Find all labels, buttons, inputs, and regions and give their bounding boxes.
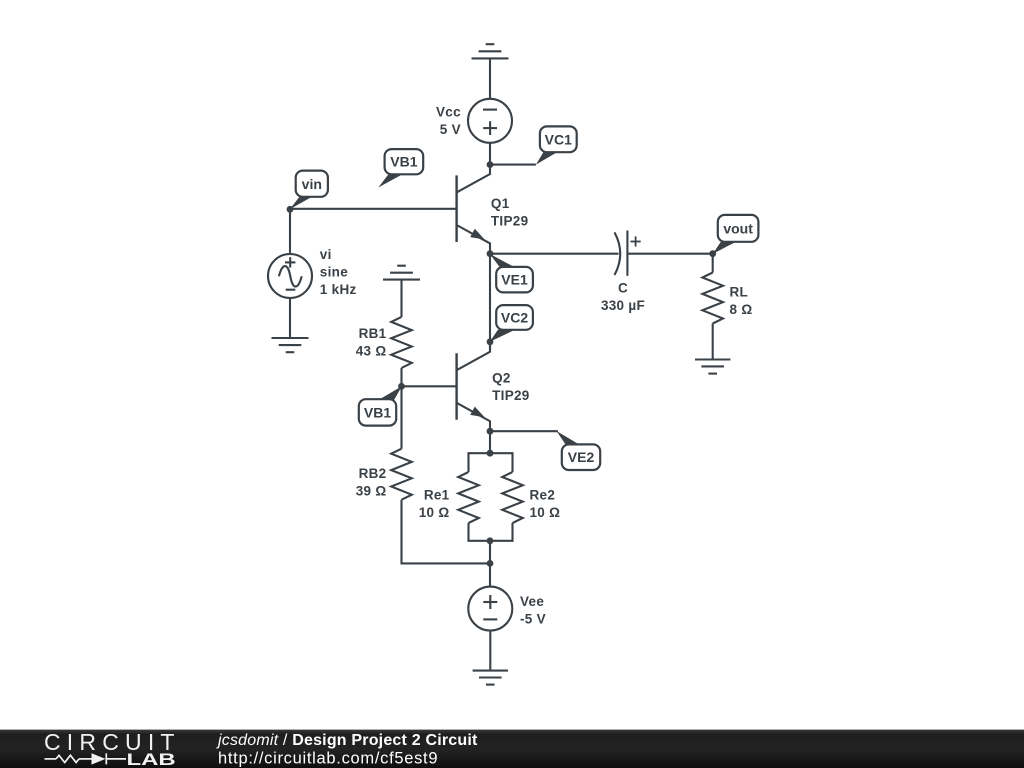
svg-text:330 µF: 330 µF: [601, 298, 645, 313]
svg-text:39 Ω: 39 Ω: [356, 484, 387, 499]
svg-text:http://circuitlab.com/cf5est9: http://circuitlab.com/cf5est9: [218, 750, 438, 768]
svg-text:RB2: RB2: [359, 466, 387, 481]
svg-text:VE2: VE2: [568, 449, 595, 465]
svg-text:RL: RL: [730, 285, 749, 300]
svg-text:5 V: 5 V: [440, 122, 461, 137]
svg-text:VB1: VB1: [390, 154, 417, 170]
svg-text:C: C: [618, 281, 628, 296]
svg-text:8 Ω: 8 Ω: [730, 302, 753, 317]
svg-text:VB1: VB1: [364, 404, 391, 420]
svg-text:VC1: VC1: [545, 131, 572, 147]
svg-text:LAB: LAB: [127, 751, 176, 768]
svg-text:RB1: RB1: [359, 326, 387, 341]
svg-text:VC2: VC2: [501, 309, 528, 325]
svg-text:TIP29: TIP29: [491, 213, 529, 228]
svg-text:1 kHz: 1 kHz: [320, 282, 357, 297]
svg-text:Re2: Re2: [530, 488, 556, 503]
svg-text:VE1: VE1: [501, 272, 528, 288]
svg-text:10 Ω: 10 Ω: [530, 505, 561, 520]
svg-text:vout: vout: [723, 221, 753, 237]
svg-text:Q1: Q1: [491, 196, 510, 211]
svg-text:-5 V: -5 V: [520, 612, 546, 627]
svg-text:Vcc: Vcc: [436, 105, 461, 120]
svg-text:sine: sine: [320, 265, 348, 280]
svg-text:jcsdomit / Design Project 2 Ci: jcsdomit / Design Project 2 Circuit: [216, 732, 478, 749]
svg-text:vi: vi: [320, 247, 332, 262]
svg-text:TIP29: TIP29: [492, 388, 530, 403]
svg-text:43 Ω: 43 Ω: [356, 344, 387, 359]
svg-text:Vee: Vee: [520, 594, 544, 609]
svg-text:Q2: Q2: [492, 371, 511, 386]
svg-text:10 Ω: 10 Ω: [419, 505, 450, 520]
svg-text:vin: vin: [302, 176, 322, 192]
svg-text:Re1: Re1: [424, 488, 450, 503]
